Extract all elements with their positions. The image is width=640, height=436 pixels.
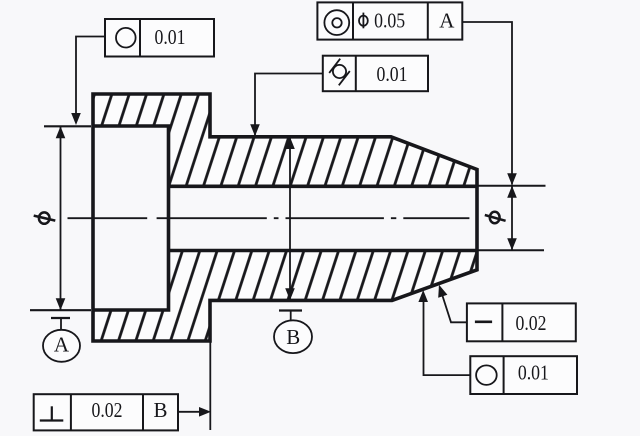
svg-text:B: B (153, 398, 167, 422)
arrow middle dim top (285, 137, 295, 149)
symbol circularity top-left (116, 28, 136, 48)
phi symbol right (485, 212, 506, 223)
arrow right dim top (507, 186, 517, 198)
arrow left dim bottom (56, 298, 66, 310)
bore top line (169, 185, 478, 189)
extension line for perpendicularity datum (209, 342, 211, 430)
svg-text:A: A (54, 333, 70, 357)
centerline axis (68, 217, 475, 219)
bore bottom line (169, 249, 478, 253)
hatched section lower body (93, 251, 477, 342)
dimension line middle phi B (289, 137, 291, 301)
hatched section upper body (93, 94, 477, 186)
frame perpendicularity bottom-left (34, 394, 178, 430)
frame cylindricity (323, 56, 428, 91)
symbol cylindricity (329, 59, 350, 86)
symbol perpendicularity (40, 406, 64, 420)
dimension line right phi (511, 186, 513, 251)
svg-text:0.02: 0.02 (92, 398, 123, 422)
arrow left dim top (56, 126, 66, 138)
symbol concentricity (324, 10, 349, 35)
arrow leader cylindricity (250, 124, 260, 136)
arrow leader circularity top-left (71, 113, 81, 125)
datum A symbol (43, 318, 80, 362)
arrow leader concentricity (507, 173, 517, 185)
frame straightness (467, 303, 576, 341)
leader concentricity to bore (462, 22, 512, 185)
frame circularity top-left (105, 19, 214, 57)
leader circularity top-left (76, 37, 105, 123)
phi glyph in concentricity frame (359, 13, 368, 29)
svg-text:0.01: 0.01 (518, 360, 549, 384)
arrow leader circularity bottom-right (418, 290, 428, 302)
svg-text:0.01: 0.01 (377, 62, 408, 86)
leader straightness (440, 287, 467, 323)
arrow middle dim bottom (285, 288, 295, 300)
dimension line left phi (60, 126, 62, 310)
phi symbol left (34, 212, 56, 223)
symbol straightness dash (475, 320, 492, 323)
frame circularity bottom-right (470, 356, 577, 394)
svg-text:0.01: 0.01 (155, 25, 186, 49)
arrow leader straightness (438, 285, 447, 298)
svg-text:A: A (439, 8, 455, 32)
counterbore outline (93, 126, 169, 310)
extension line left bottom (30, 309, 91, 311)
frame concentricity top-right (317, 2, 462, 39)
extension line right bore bottom (477, 249, 544, 251)
symbol circularity bottom-right (476, 365, 497, 385)
leader perpendicularity (178, 411, 200, 413)
extension line right bore top (477, 185, 546, 187)
arrow right dim bottom (507, 238, 517, 250)
part outer profile (93, 94, 477, 341)
leader circularity bottom-right (424, 294, 471, 375)
arrow leader perpendicularity (199, 407, 211, 417)
leader cylindricity (255, 74, 323, 136)
svg-text:0.02: 0.02 (516, 311, 547, 335)
svg-text:0.05: 0.05 (374, 9, 405, 33)
svg-text:B: B (286, 325, 300, 349)
datum B symbol (274, 311, 312, 354)
extension line left top (44, 125, 91, 127)
